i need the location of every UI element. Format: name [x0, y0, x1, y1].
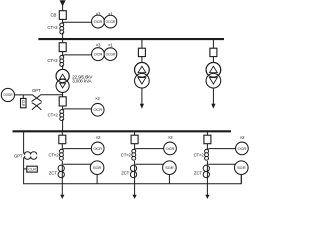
svg-text:×1: ×1 [108, 43, 113, 48]
ZCT coil (feeder F3) [203, 165, 209, 171]
svg-text:×2: ×2 [96, 135, 101, 140]
wire: GPT down to common line [23, 159, 25, 184]
svg-text:ZCT: ZCT [194, 171, 202, 176]
wire: CT2 to transformer T0 [62, 65, 64, 70]
svg-text:CT×3: CT×3 [47, 58, 58, 63]
transformer T1 secondary winding [135, 73, 150, 88]
wire: CB to CT (feeder F1) [61, 144, 63, 150]
svg-text:OCGR: OCGR [106, 20, 116, 24]
wire: OVGR to GPT [14, 94, 33, 96]
common SGR/GPT return line [24, 175, 242, 184]
transformer T1 primary outline [135, 62, 150, 77]
wire: ZCT to SGR (feeder F3) [208, 163, 236, 165]
T1 delta symbol (up triangle) [138, 66, 146, 72]
wire: CT2 branch to OCR [63, 55, 92, 57]
svg-text:CT×2: CT×2 [121, 153, 132, 158]
T1 inverted triangle [138, 78, 146, 84]
relay OCR (transformer, ×3) [92, 48, 105, 61]
wire: CB to CT (feeder F3) [206, 144, 208, 150]
CT coil CTx2 (feeder F1) [60, 149, 64, 153]
svg-text:×2: ×2 [95, 96, 100, 101]
ZCT coil (feeder F2) [130, 165, 136, 171]
circuit breaker (feeder T2) [210, 48, 217, 56]
wire: CB to CT (feeder F2) [134, 144, 136, 150]
CT2 coil (CTx3) [60, 55, 64, 59]
svg-text:ZCT: ZCT [49, 171, 57, 176]
svg-text:×2: ×2 [168, 135, 173, 140]
relay OCGR (incoming, ×1) [104, 15, 117, 28]
wire: GPT branch (right segment to main column) [40, 94, 62, 96]
wire: SGR to common line (feeder F3) [240, 175, 242, 184]
GPT primary winding (bumps up) [24, 152, 37, 155]
relay OCR (feeder F2) [164, 142, 177, 155]
transformer T0 primary outline [56, 69, 69, 82]
relay OCR (incoming, ×3) [92, 15, 105, 28]
wire: CB to CT1 [62, 19, 64, 23]
load arrow (feeder F3) [205, 195, 209, 199]
wire: ZCT to SGR (feeder F2) [135, 163, 164, 165]
circuit breaker CB (incoming) [59, 11, 66, 20]
transformer T2 secondary winding [206, 73, 221, 88]
load arrow (feeder F1) [60, 195, 64, 199]
wire: CB to transformer T1 [141, 57, 143, 63]
CT coil CTx2 (feeder F3) [205, 149, 209, 153]
svg-text:OCR: OCR [94, 52, 103, 57]
svg-text:×3: ×3 [96, 43, 101, 48]
wire: stub to CLR (lower) [24, 168, 27, 170]
GPT crossed windings symbol [33, 95, 42, 101]
T2 inverted triangle [210, 78, 218, 84]
bus 2 (6.6kV busbar) [13, 130, 232, 132]
svg-text:OCR: OCR [93, 146, 102, 151]
CLR resistor box (lower) [27, 166, 38, 172]
wire: arrow to CB [62, 5, 64, 11]
wire: ZCT to SGR (feeder F1) [63, 163, 92, 165]
T2 delta symbol (up triangle) [210, 66, 218, 72]
relay OCR (secondary, ×2) [91, 103, 104, 116]
relay OCGR (transformer, ×1) [104, 48, 117, 61]
CT1 coil (CTx3) [60, 23, 64, 27]
wire: SGR to common line (feeder F2) [168, 175, 170, 184]
GPT secondary winding (bumps down) [24, 157, 37, 160]
relay OCR (feeder F3) [236, 142, 249, 155]
load arrow (feeder T1) [140, 104, 144, 109]
transformer T1 primary winding [135, 62, 150, 77]
relay OCR (feeder F1) [91, 142, 104, 155]
svg-text:GPT: GPT [14, 154, 23, 159]
svg-text:CT×2: CT×2 [194, 153, 205, 158]
CT3 coil (CTx2) [60, 110, 64, 114]
wire: bus 2 to feeder F3 CB [206, 132, 208, 135]
svg-text:OCR: OCR [238, 146, 247, 151]
svg-text:CLR: CLR [28, 167, 36, 172]
wire: CB2 to CT2 [62, 52, 64, 56]
wire: CT1 to bus 1 [62, 33, 64, 39]
wire: stub to CLR (upper) [22, 95, 24, 99]
svg-text:OCR: OCR [166, 146, 175, 151]
wire: CB to transformer T2 [212, 57, 214, 63]
CT coil CTx2 (feeder F2) [132, 149, 136, 153]
circuit breaker CB3 (transformer secondary) [59, 97, 66, 106]
incoming supply arrow [60, 0, 66, 6]
wire: bus 1 to feeder T2 CB [212, 40, 214, 48]
svg-text:SGR: SGR [93, 165, 102, 170]
relay OVGR [1, 88, 14, 101]
svg-text:3,000 kVA: 3,000 kVA [72, 78, 92, 83]
wire: bus 1 to feeder T1 CB [141, 40, 143, 48]
wire: CT branch to OCR (feeder F1) [62, 149, 91, 151]
transformer T2 primary outline [206, 62, 221, 77]
svg-text:OCR: OCR [93, 107, 102, 112]
circuit breaker (feeder F3) [204, 135, 211, 144]
load arrow (feeder F2) [133, 195, 137, 199]
wire: bus 1 to CB2 [62, 40, 64, 43]
svg-text:SGR: SGR [237, 165, 246, 170]
svg-text:OCR: OCR [94, 19, 103, 24]
circuit breaker (feeder F1) [59, 135, 66, 144]
wire: CB3 to CT3 [62, 106, 64, 110]
wire: feeder F3 down to load [206, 161, 208, 195]
circuit breaker (feeder T1) [138, 48, 145, 56]
svg-text:OCGR: OCGR [106, 52, 116, 56]
transformer T2 primary winding [206, 62, 221, 77]
svg-text:CT×2: CT×2 [48, 112, 59, 117]
wire: bus 2 to feeder F2 CB [134, 132, 136, 135]
load arrow (feeder T2) [211, 104, 215, 109]
T0 inverted triangle [60, 83, 66, 88]
svg-text:CB: CB [51, 13, 57, 18]
wire: T2 to load arrow [212, 88, 214, 104]
wire: feeder F2 down to load [134, 161, 136, 195]
bus 1 (22.9kV busbar) [38, 38, 224, 40]
circuit breaker CB2 (transformer primary) [59, 43, 66, 52]
wire: bus 2 to feeder F1 CB [61, 132, 63, 135]
svg-text:CLR: CLR [21, 100, 25, 107]
svg-text:ZCT: ZCT [121, 171, 129, 176]
wire: CT3 branch to OCR [63, 109, 92, 111]
relay SGR (feeder F3) [235, 161, 249, 175]
wire: SGR to common line (feeder F1) [96, 175, 98, 184]
transformer T0 primary winding (delta) [56, 69, 69, 82]
wire: bus 2 to GPT [23, 132, 25, 152]
relay SGR (feeder F1) [90, 161, 104, 175]
svg-text:OVGR: OVGR [3, 93, 13, 97]
wire: CT branch to OCR (feeder F3) [207, 149, 235, 151]
svg-text:CT×3: CT×3 [47, 25, 58, 30]
svg-text:×2: ×2 [240, 135, 245, 140]
T0 delta symbol (up triangle) [60, 74, 66, 79]
wire: CT branch to OCR (feeder F2) [135, 149, 164, 151]
wire: CT1 branch to OCR [63, 22, 92, 24]
svg-text:SGR: SGR [165, 165, 174, 170]
ZCT coil (feeder F1) [58, 165, 64, 171]
CLR resistor box (upper, vertical) [21, 98, 27, 107]
svg-text:GPT: GPT [32, 88, 41, 93]
wire: T0 to CB3 [62, 92, 64, 97]
wire: feeder F1 down to load [61, 161, 63, 195]
transformer T0 secondary winding [56, 79, 69, 92]
svg-text:CT×2: CT×2 [48, 153, 59, 158]
circuit breaker (feeder F2) [131, 135, 138, 144]
wire: CT3 to bus 2 [62, 119, 64, 130]
wire: T1 to load arrow [141, 88, 143, 104]
relay SGR (feeder F2) [163, 161, 177, 175]
